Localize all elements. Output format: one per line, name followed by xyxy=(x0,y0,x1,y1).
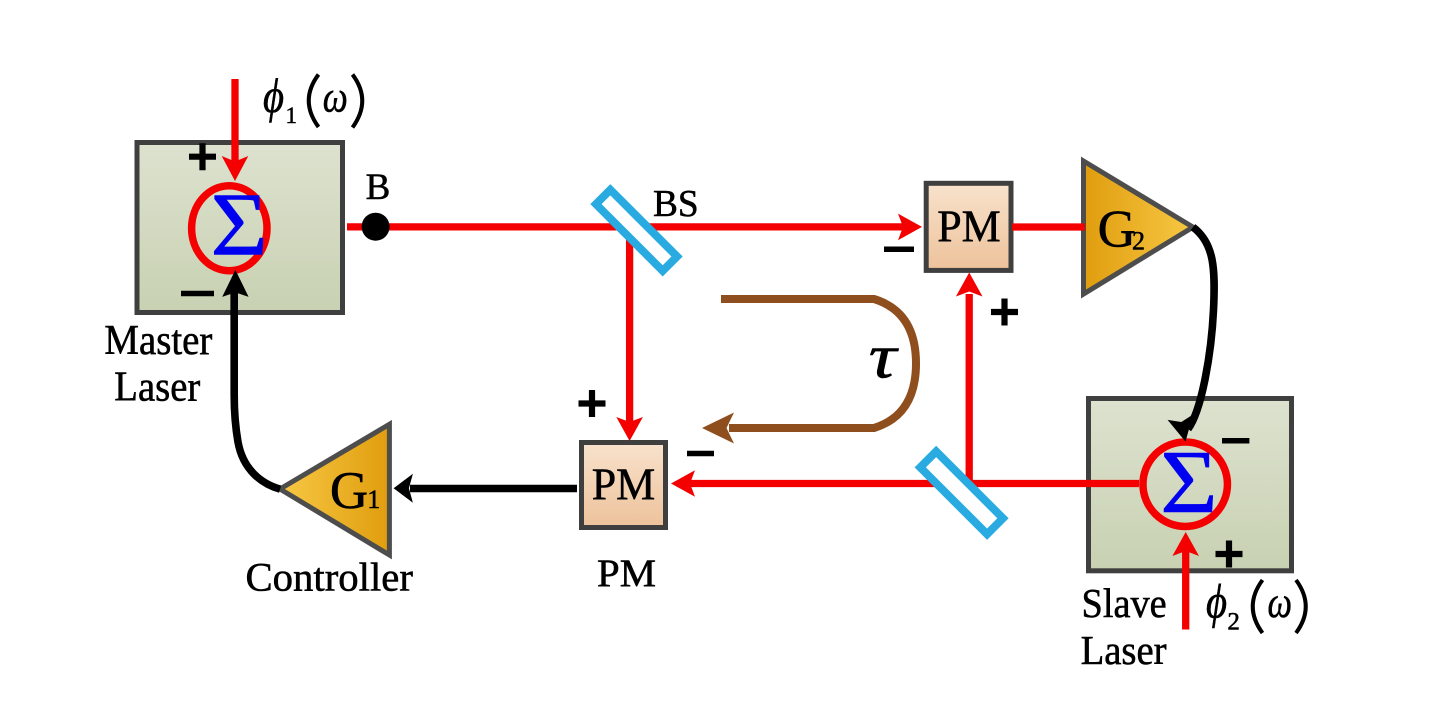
svg-text:B: B xyxy=(366,167,391,208)
svg-text:ϕ: ϕ xyxy=(263,68,284,122)
svg-text:Controller: Controller xyxy=(246,554,413,599)
svg-text:1: 1 xyxy=(367,485,380,514)
svg-text:Laser: Laser xyxy=(1081,627,1167,673)
svg-text:BS: BS xyxy=(653,183,699,225)
svg-text:G: G xyxy=(1098,200,1136,258)
svg-text:G: G xyxy=(330,462,368,520)
svg-text:Σ: Σ xyxy=(210,176,268,275)
svg-text:Σ: Σ xyxy=(1160,433,1218,532)
svg-text:ϕ: ϕ xyxy=(1206,574,1227,628)
svg-text:1: 1 xyxy=(286,103,298,128)
svg-text:2: 2 xyxy=(1132,226,1145,255)
svg-text:PM: PM xyxy=(597,552,656,595)
svg-text:Master: Master xyxy=(104,318,212,364)
svg-text:Laser: Laser xyxy=(114,365,200,411)
svg-text:ω: ω xyxy=(323,72,348,121)
svg-text:τ: τ xyxy=(869,323,900,392)
svg-text:PM: PM xyxy=(937,202,1001,252)
svg-text:PM: PM xyxy=(592,460,656,510)
svg-text:Slave: Slave xyxy=(1082,580,1167,626)
svg-text:2: 2 xyxy=(1227,609,1240,636)
svg-text:ω: ω xyxy=(1267,578,1292,627)
